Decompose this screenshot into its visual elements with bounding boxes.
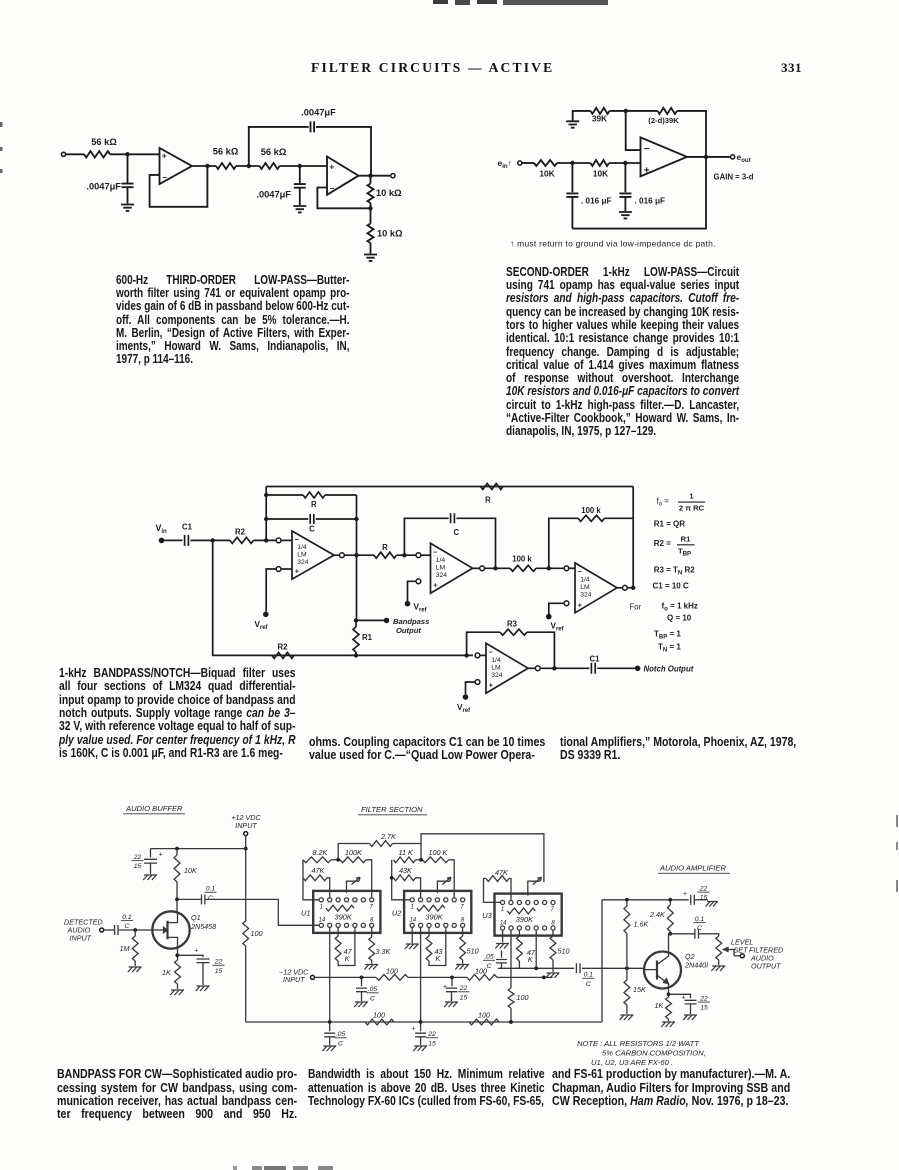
wire V_ref branch U1d (466, 682, 476, 694)
resistor 100 (bottom rail first) (365, 1019, 394, 1025)
svg-text:8.2K: 8.2K (313, 848, 329, 857)
svg-text:390K: 390K (334, 912, 352, 921)
svg-text:56 kΩ: 56 kΩ (261, 147, 287, 157)
wire (473, 567, 480, 569)
wire (527, 632, 554, 668)
svg-text:C: C (370, 995, 375, 1002)
resistor 10 kohm (lower) (370, 208, 372, 223)
wire (254, 539, 277, 541)
svg-text:C: C (697, 925, 702, 932)
svg-text:−: − (644, 144, 650, 155)
ground (413, 1046, 427, 1051)
wire (528, 667, 535, 669)
wire (104, 929, 115, 931)
node junction (368, 174, 372, 178)
wire +12 bottom rail (246, 1021, 602, 1023)
svg-text:1: 1 (689, 492, 694, 501)
svg-text:100: 100 (478, 1011, 490, 1020)
wire (191, 539, 231, 541)
wire buffer supply rail (151, 848, 246, 850)
wire V_ref branch U1c (549, 603, 564, 614)
page number 331 (781, 60, 802, 76)
wire U3 pin13 feed (510, 930, 512, 988)
node: output U1b (480, 566, 485, 571)
wire feedback riser (249, 127, 309, 166)
wire bottom feedback rail (572, 157, 706, 229)
wire U2 pin 14 ground stub (411, 927, 413, 943)
wire inter-stage top rail (421, 834, 544, 883)
svg-text:.05: .05 (484, 954, 494, 961)
svg-text:C1: C1 (182, 523, 193, 532)
node: output terminal (391, 174, 395, 178)
svg-text:100: 100 (373, 1011, 385, 1020)
capacitor .05/C (bottom rail left) (329, 1022, 331, 1031)
resistor 510 below U2 (462, 927, 464, 936)
wire U3 input vertical (484, 879, 501, 903)
scan artifact top edge (433, 0, 448, 4)
svg-text:R1: R1 (362, 633, 373, 642)
wire U3 output line (498, 930, 574, 968)
wire feedback top rail (316, 127, 371, 158)
node V_ref (U1c) (546, 614, 552, 620)
svg-text:LM: LM (580, 584, 590, 591)
svg-text:22: 22 (699, 995, 708, 1002)
op-amp A2 (741) (327, 157, 359, 195)
svg-text:100 k: 100 k (581, 506, 601, 515)
wire C feedback loop U1b (404, 518, 448, 555)
svg-text:2N5458: 2N5458 (190, 922, 216, 931)
svg-text:2.4K: 2.4K (649, 910, 666, 919)
node junction (360, 976, 364, 980)
wire inverting input branch (626, 111, 641, 150)
ground (619, 212, 632, 218)
wire from top rail to output node (370, 158, 372, 176)
capacitor .0047uF (feedback) (311, 121, 315, 132)
resistor (2-d)39K (658, 108, 678, 114)
node: inverting input U1d (475, 653, 480, 658)
svg-text:56 kΩ: 56 kΩ (213, 147, 239, 157)
wire (316, 518, 357, 520)
node junction (493, 566, 497, 570)
scan artifact right edge (896, 815, 898, 827)
wire (281, 568, 292, 570)
svg-text:0.1: 0.1 (695, 916, 705, 923)
node: input terminal e_in (518, 161, 522, 165)
svg-text:C: C (338, 1040, 343, 1047)
ground (143, 875, 157, 880)
node: inverting input U1b (416, 553, 421, 558)
svg-text:ein↑: ein↑ (498, 158, 512, 170)
capacitor 22/15 (bottom rail) (420, 1022, 422, 1031)
wire C-feedback rail (266, 518, 308, 520)
wire U3 pin 14 ground stub (502, 930, 504, 942)
node junction (bandpass tap) (354, 618, 358, 622)
capacitor 0.1/C (buffer output coupling) (177, 898, 202, 900)
svg-text:10K: 10K (184, 866, 198, 875)
wire top rail with ground stub (573, 111, 591, 121)
svg-text:AUDIO AMPLIFIER: AUDIO AMPLIFIER (659, 864, 726, 873)
wire (176, 882, 178, 911)
node V_ref (U1a) (263, 612, 269, 618)
svg-text:−: − (489, 647, 494, 656)
op-amp U1 (741) (641, 137, 688, 176)
node: -12 VDC input terminal (311, 975, 315, 979)
capacitor .016uF (to feedback rail) (571, 163, 573, 192)
svg-text:For: For (630, 603, 642, 612)
capacitor 0.1/C (input coupling) (115, 925, 118, 935)
resistor 390K internal U1 (326, 905, 354, 911)
node junction (668, 898, 672, 902)
svg-text:C: C (453, 528, 459, 537)
resistor 3.3K below U1 (371, 927, 373, 937)
svg-text:1.6K: 1.6K (634, 920, 650, 929)
capacitor C (feedback around A) (310, 514, 314, 524)
ground (405, 944, 419, 949)
node junction (354, 653, 358, 657)
svg-text:U3: U3 (482, 911, 492, 920)
svg-text:↑ must return to ground via lo: ↑ must return to ground via low-impedanc… (510, 239, 716, 249)
svg-text:LM: LM (436, 565, 446, 572)
resistor 39K (591, 108, 610, 114)
node junction (354, 517, 358, 521)
svg-text:R1 = QR: R1 = QR (654, 520, 686, 529)
ground (121, 205, 134, 211)
resistor R3 (500, 629, 527, 635)
wire to U2 pin 2 (416, 878, 421, 898)
svg-text:15: 15 (215, 968, 223, 975)
svg-text:8: 8 (370, 918, 374, 924)
svg-text:Output: Output (396, 626, 421, 635)
node: +12 VDC input terminal (244, 832, 248, 836)
wire riser to feedback rails (265, 487, 267, 541)
wire (480, 654, 486, 656)
wire (280, 165, 328, 167)
svg-text:22: 22 (427, 1031, 436, 1038)
svg-text:15: 15 (700, 1005, 708, 1012)
trimmer arrow U1 (347, 881, 360, 893)
wire bottom rail to notch amp (213, 540, 473, 655)
svg-text:+: + (412, 1026, 416, 1033)
capacitor C1 (input) (185, 535, 189, 546)
resistor 100K (U1 feedback) (340, 857, 366, 863)
wire emitter (668, 989, 670, 998)
wire output (687, 156, 731, 158)
capacitor 22/15 (supply bypass) (150, 849, 152, 858)
svg-text:+: + (682, 995, 686, 1002)
svg-text:56 kΩ: 56 kΩ (91, 137, 117, 147)
node: non-inverting input U1c (564, 601, 569, 606)
node: V_in input (159, 538, 165, 544)
resistor R2 (input) (230, 537, 254, 543)
wire (344, 554, 374, 556)
node bandpass output (384, 618, 390, 624)
svg-text:510: 510 (558, 947, 570, 956)
svg-text:10K: 10K (593, 169, 608, 179)
svg-text:14: 14 (409, 918, 416, 924)
potentiometer LEVEL SET (714, 934, 719, 936)
node junction (336, 858, 340, 862)
svg-text:8: 8 (461, 918, 465, 924)
transistor Q2 2N4401 (NPN) (644, 952, 681, 989)
svg-text:2 π RC: 2 π RC (679, 504, 705, 513)
node: output U1c (623, 585, 628, 590)
ground (128, 967, 142, 972)
svg-text:fo =: fo = (657, 497, 670, 508)
ground (711, 966, 725, 971)
svg-text:.0047μF: .0047μF (256, 190, 291, 200)
wire (540, 667, 589, 669)
svg-text:C: C (125, 923, 130, 930)
svg-text:Vref: Vref (457, 703, 471, 714)
node junction (419, 1020, 423, 1024)
caption: bandpass for CW column 3 (552, 1067, 790, 1107)
wire (334, 554, 340, 556)
svg-text:22: 22 (133, 854, 142, 861)
node: non-inverting input U1b (416, 579, 421, 584)
capacitor .0047uF (first shunt) (127, 154, 129, 183)
node junction (328, 1020, 332, 1024)
node: input terminal of 600-Hz low-pass (61, 152, 65, 156)
svg-text:+: + (162, 151, 167, 161)
capacitor 22/15 (-12V rail) (451, 977, 453, 986)
wire (609, 162, 641, 164)
svg-text:INPUT: INPUT (283, 975, 305, 984)
svg-text:R2 =: R2 = (654, 539, 671, 548)
scan artifact left edge (0, 122, 3, 127)
svg-text:AUDIO BUFFER: AUDIO BUFFER (125, 804, 183, 813)
wire long feedback top rail (266, 486, 633, 488)
wire V_ref branch U1b (408, 581, 417, 601)
wire 100k feedback loop U1c (549, 518, 578, 568)
resistor 15K (624, 980, 630, 1005)
wire (281, 539, 292, 541)
ground (706, 902, 718, 907)
capacitor .016uF (to ground) (624, 163, 626, 192)
caption: 600-Hz third-order low-pass (116, 273, 350, 366)
resistor 1K (emitter) (666, 997, 672, 1019)
trimmer arrow U2 (437, 881, 450, 893)
svg-text:15: 15 (134, 863, 142, 870)
node junction (354, 553, 358, 557)
wire (536, 567, 564, 569)
resistor 390K internal U3 (507, 908, 535, 914)
node junction (402, 553, 406, 557)
svg-text:7: 7 (551, 907, 555, 913)
svg-text:100: 100 (475, 966, 487, 975)
caption: second-order 1-kHz low-pass (506, 265, 739, 438)
svg-text:. 016 μF: . 016 μF (581, 197, 612, 206)
svg-text:−: − (330, 184, 335, 194)
ground (354, 1002, 368, 1007)
IC U3 (FX-60) (495, 894, 562, 936)
node junction (450, 976, 454, 980)
svg-text:Vref: Vref (255, 620, 269, 631)
capacitor 22/15 (emitter bypass) (669, 994, 691, 998)
svg-text:U1: U1 (301, 909, 310, 918)
resistor 47/K below U3 (518, 930, 520, 936)
svg-text:Vin: Vin (156, 523, 168, 535)
svg-text:324: 324 (436, 572, 448, 579)
svg-text:R: R (485, 496, 491, 505)
wire source (177, 949, 179, 960)
svg-text:1/4: 1/4 (580, 577, 590, 584)
svg-text:22: 22 (459, 985, 468, 992)
svg-text:TBP: TBP (678, 547, 691, 558)
svg-text:22: 22 (699, 885, 708, 892)
wire to U1 pin 14 (205, 899, 319, 925)
svg-text:NOTE : ALL RESISTORS 1/2 WA: NOTE : ALL RESISTORS 1/2 WATT (577, 1039, 700, 1048)
node: output U1d (535, 666, 540, 671)
ground (683, 1015, 697, 1020)
caption: bandpass for CW column 1 (57, 1067, 297, 1121)
svg-text:10 kΩ: 10 kΩ (377, 229, 403, 239)
resistor 100 (+12V feed) (243, 921, 249, 946)
wire riser to top rail (632, 487, 634, 588)
resistor 10K (first) (534, 160, 557, 166)
capacitor 0.1/C (amp output) (670, 933, 695, 935)
node junction (704, 155, 708, 159)
wire (557, 162, 591, 164)
svg-text:100 k: 100 k (512, 555, 532, 564)
wire (118, 929, 152, 931)
resistor R (series to U1b) (374, 552, 397, 558)
transistor Q1 2N5458 (JFET) (152, 911, 189, 948)
resistor 43/K below U2 (428, 927, 430, 936)
wire output A1 (192, 165, 216, 167)
node junction (133, 928, 137, 932)
node junction (175, 847, 179, 851)
node: inverting input U1a (276, 538, 281, 543)
resistor 47K (U3) (486, 876, 509, 882)
svg-text:−: − (295, 535, 300, 544)
svg-text:324: 324 (580, 592, 592, 599)
resistor R1 (355, 620, 357, 627)
node junction (570, 161, 574, 165)
wire (245, 946, 247, 1022)
wire to output terminal (734, 955, 740, 957)
svg-text:1/4: 1/4 (297, 544, 307, 551)
wire to Q2 base (582, 967, 644, 969)
svg-text:1/4: 1/4 (491, 657, 501, 664)
svg-text:1M: 1M (120, 944, 130, 953)
resistor 56 kohm (input) (84, 151, 110, 157)
node junction (464, 653, 468, 657)
ground (39K return) (566, 121, 579, 127)
svg-text:C: C (309, 525, 315, 534)
node junction (624, 109, 628, 113)
resistor 100 k (feedback around U1c) (578, 515, 605, 521)
node junction (175, 953, 179, 957)
svg-text:14: 14 (500, 920, 507, 926)
ground (620, 1015, 634, 1020)
node: output terminal e_out (731, 155, 735, 159)
svg-text:SET: SET (734, 946, 749, 955)
node V_ref (U1b) (405, 601, 411, 607)
wire to U1 pin 7 (366, 860, 372, 898)
svg-text:TN = 1: TN = 1 (658, 643, 681, 654)
svg-text:100K: 100K (345, 848, 363, 857)
wire (164, 539, 183, 541)
node notch output (635, 666, 641, 672)
resistor R2 (to notch) (272, 652, 294, 658)
wire (497, 976, 553, 978)
wire (569, 567, 575, 569)
svg-text:324: 324 (491, 672, 503, 679)
svg-text:FILTER SECTION: FILTER SECTION (361, 805, 423, 814)
svg-text:11 K: 11 K (399, 848, 414, 857)
svg-text:0.1: 0.1 (206, 886, 216, 893)
resistor 10K (second) (591, 160, 610, 166)
svg-text:. 016 μF: . 016 μF (635, 197, 666, 206)
capacitor 0.1/C (to amplifier) (576, 963, 580, 973)
node: output U1a (340, 553, 345, 558)
svg-text:0.1: 0.1 (122, 914, 132, 921)
trimmer arrow U3 (528, 881, 541, 895)
ground (170, 990, 184, 995)
svg-text:8: 8 (551, 920, 555, 926)
resistor 1M (gate bias) (134, 930, 136, 936)
node junction (542, 976, 546, 980)
svg-text:R2: R2 (235, 528, 246, 537)
svg-text:1: 1 (501, 907, 504, 913)
svg-text:LM: LM (491, 665, 501, 672)
wire (66, 153, 84, 155)
wire (397, 554, 416, 556)
capacitor .0047uF (second shunt) (299, 166, 301, 184)
node junction (419, 858, 423, 862)
wire (421, 554, 431, 556)
svg-text:47K: 47K (495, 868, 509, 877)
svg-text:100: 100 (517, 993, 529, 1002)
node junction (211, 538, 215, 542)
svg-text:.05: .05 (336, 1031, 346, 1038)
svg-text:100 K: 100 K (429, 848, 449, 857)
node junction (125, 152, 129, 156)
scan artifact bottom edge (233, 1166, 237, 1170)
resistor 100 (U3 feed) (508, 988, 514, 1008)
svg-text:Vref: Vref (551, 622, 565, 633)
resistor 56 kohm (third) (260, 163, 280, 169)
node junction (264, 538, 268, 542)
node junction (625, 966, 629, 970)
op-amp U1a (1/4 LM324) (292, 531, 334, 579)
svg-text:R3 = TN R2: R3 = TN R2 (654, 566, 696, 577)
svg-text:GAIN = 3-d: GAIN = 3-d (714, 173, 754, 182)
svg-text:510: 510 (467, 947, 479, 956)
wire (325, 494, 357, 496)
resistor R (notch feedback) (481, 484, 504, 490)
node junction (509, 1020, 513, 1024)
node junction (247, 164, 251, 168)
wire (236, 165, 260, 167)
wire (522, 162, 534, 164)
svg-text:R2: R2 (278, 643, 289, 652)
node junction (623, 161, 627, 165)
svg-text:C: C (208, 895, 213, 902)
svg-text:1: 1 (411, 905, 414, 911)
capacitor .05/C (-12V rail) (361, 977, 363, 986)
svg-text:.05: .05 (368, 986, 378, 993)
op-amp U1c (1/4 LM324) (575, 563, 617, 613)
svg-text:+: + (433, 581, 438, 590)
node junction (631, 586, 635, 590)
node: detected audio input terminal (100, 928, 104, 932)
wire (485, 567, 511, 569)
svg-text:2N440I: 2N440I (684, 961, 708, 970)
ground (293, 206, 306, 212)
wire -12V rail (315, 976, 377, 978)
svg-text:100: 100 (386, 966, 398, 975)
